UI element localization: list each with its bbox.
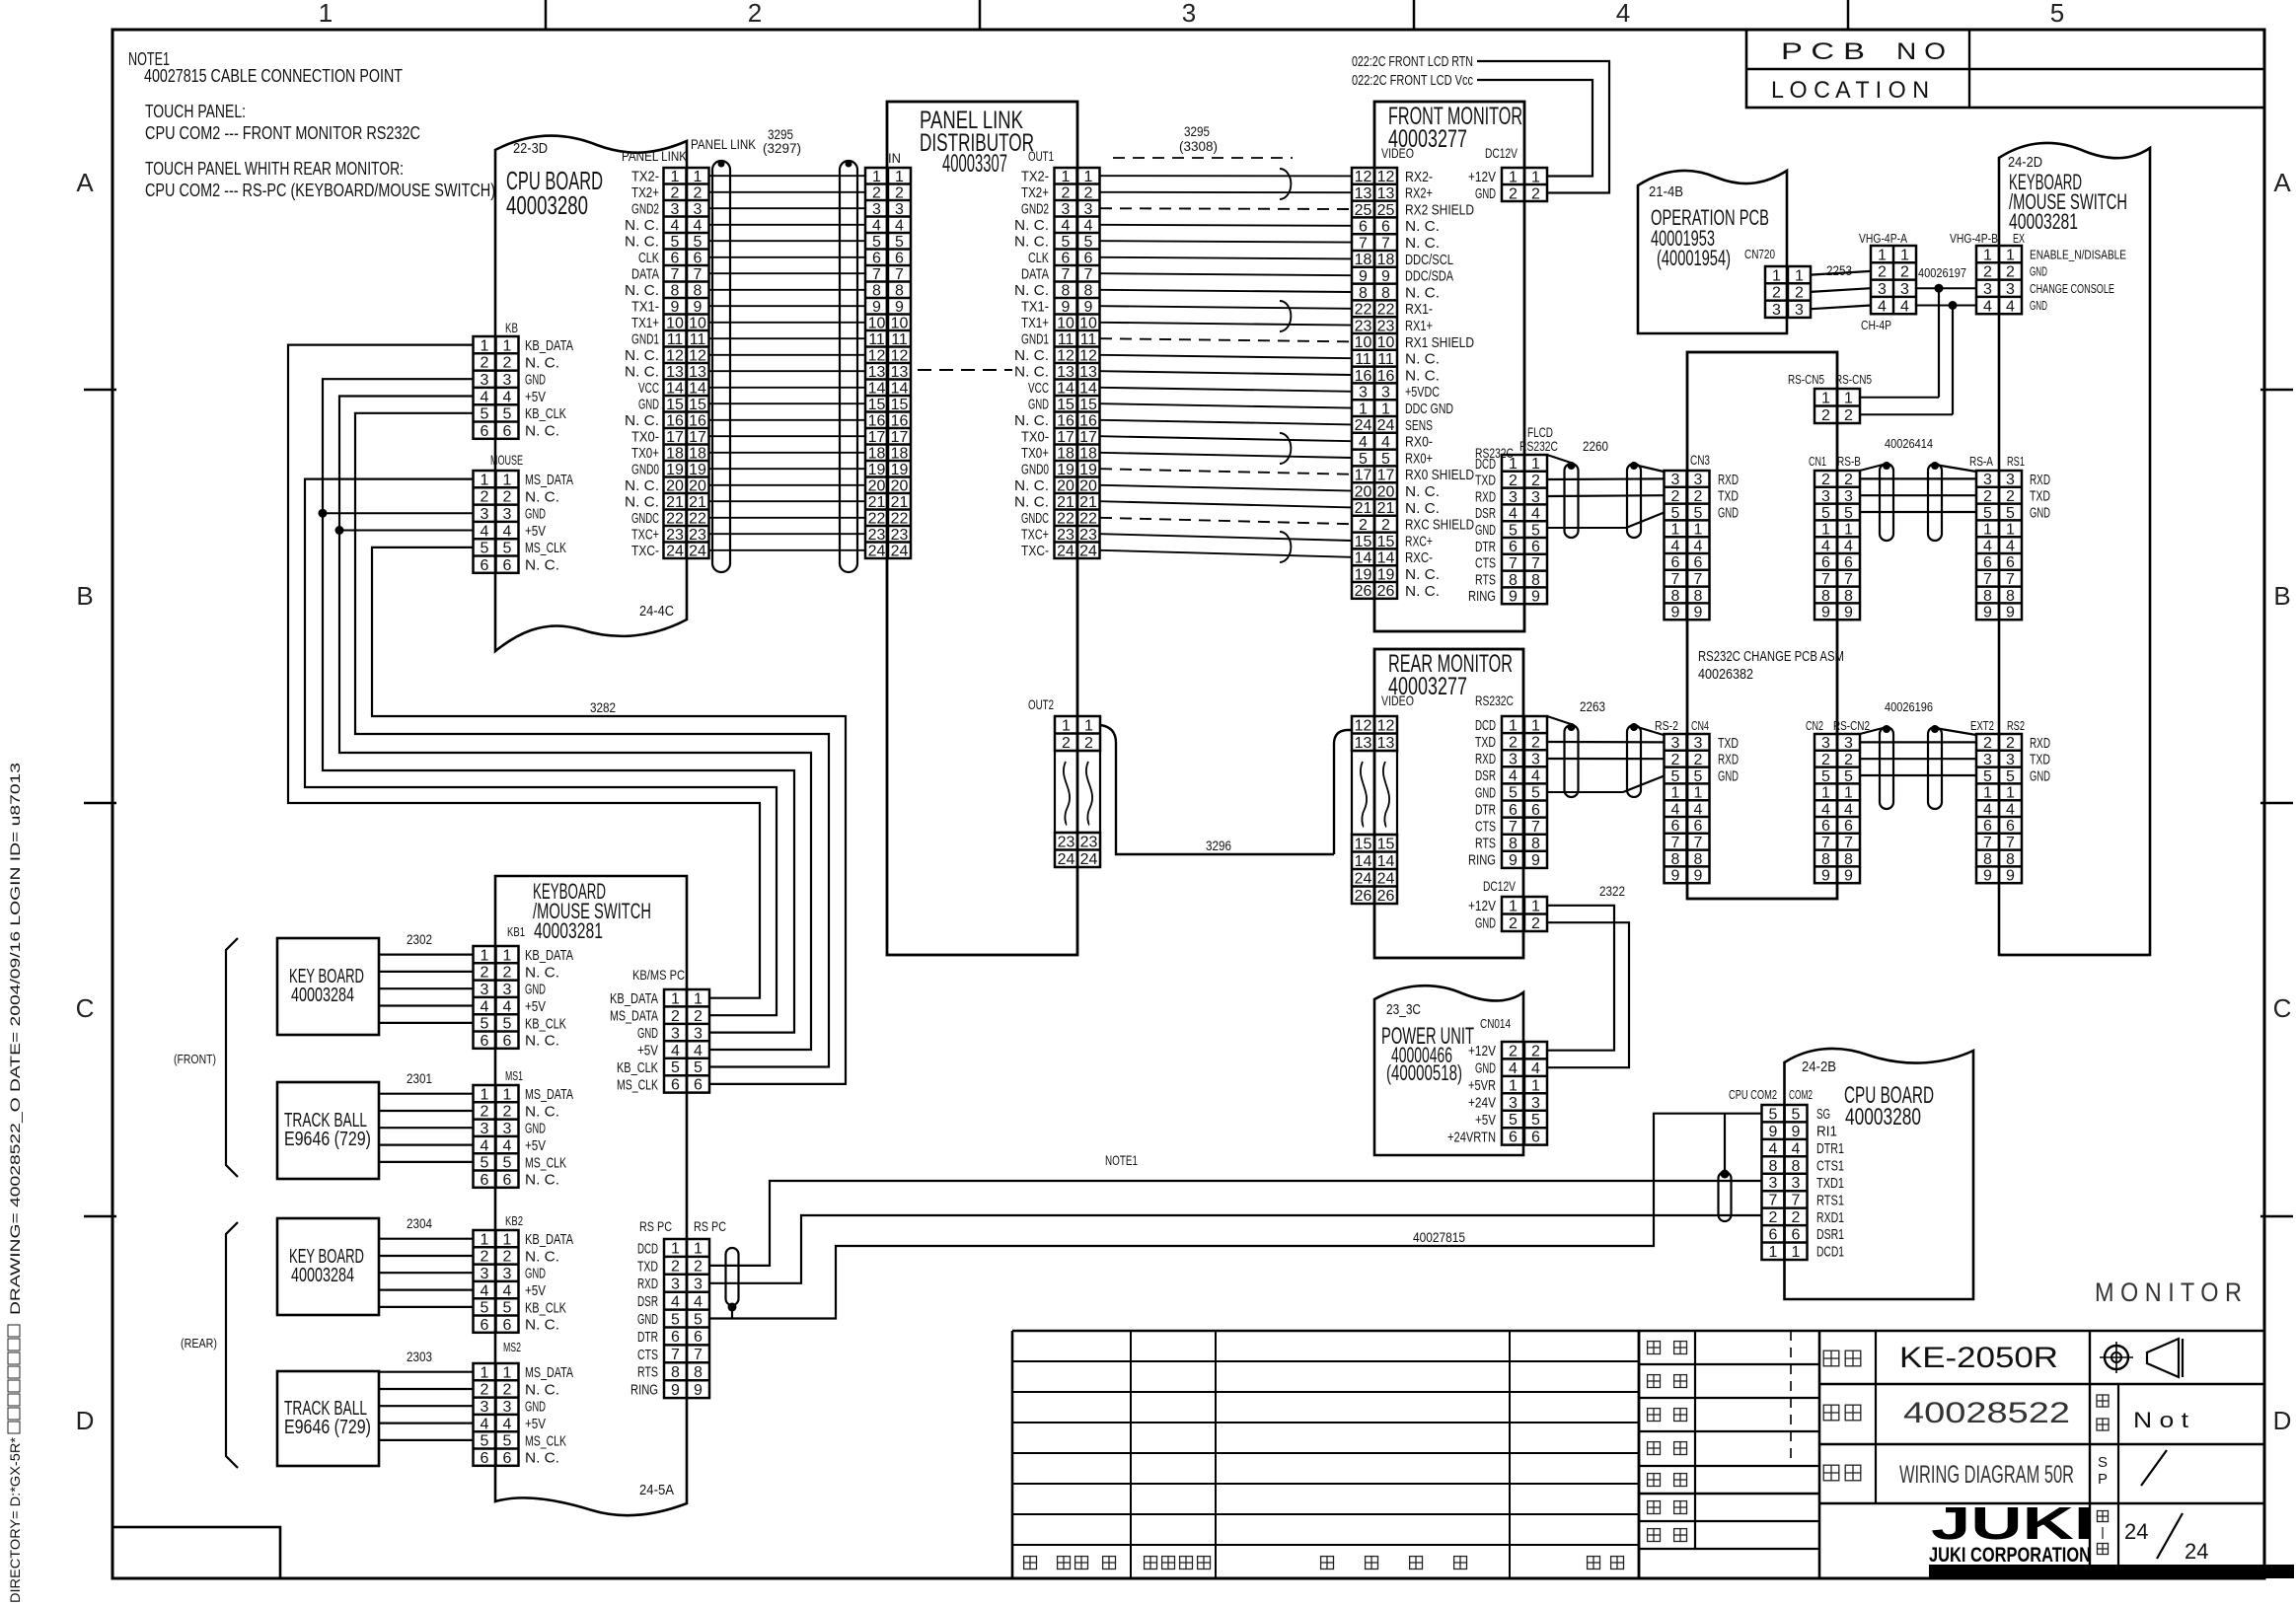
svg-text:9: 9 bbox=[671, 299, 680, 316]
svg-text:1: 1 bbox=[1062, 718, 1071, 735]
svg-text:2: 2 bbox=[1983, 264, 1992, 281]
svg-text:RX0-: RX0- bbox=[1405, 434, 1433, 451]
svg-text:2304: 2304 bbox=[407, 1215, 432, 1231]
svg-text:1: 1 bbox=[1878, 247, 1887, 263]
svg-text:RX2 SHIELD: RX2 SHIELD bbox=[1405, 201, 1474, 218]
svg-text:1: 1 bbox=[1900, 247, 1909, 263]
svg-text:24: 24 bbox=[1057, 544, 1074, 560]
svg-text:12: 12 bbox=[1377, 169, 1395, 185]
svg-text:RS232C: RS232C bbox=[1519, 438, 1558, 454]
svg-text:24: 24 bbox=[1355, 871, 1372, 888]
svg-text:11: 11 bbox=[667, 331, 684, 348]
svg-text:15: 15 bbox=[1079, 397, 1097, 413]
svg-text:1: 1 bbox=[503, 1364, 512, 1381]
svg-text:N. C.: N. C. bbox=[1405, 235, 1440, 252]
svg-text:9: 9 bbox=[1769, 1124, 1778, 1140]
svg-text:N O: N O bbox=[1896, 38, 1946, 65]
svg-text:5: 5 bbox=[2006, 505, 2015, 522]
svg-text:8: 8 bbox=[1769, 1158, 1778, 1175]
svg-text:6: 6 bbox=[671, 1077, 680, 1094]
svg-text:6: 6 bbox=[503, 1317, 512, 1334]
svg-text:4: 4 bbox=[1844, 801, 1853, 818]
svg-text:20: 20 bbox=[891, 478, 909, 495]
svg-text:5: 5 bbox=[503, 1155, 512, 1172]
svg-text:3: 3 bbox=[1983, 752, 1992, 768]
svg-text:7: 7 bbox=[694, 266, 703, 283]
svg-text:6: 6 bbox=[671, 251, 680, 267]
svg-text:DDC GND: DDC GND bbox=[1405, 401, 1453, 417]
svg-text:4: 4 bbox=[1671, 538, 1680, 554]
svg-text:MS_CLK: MS_CLK bbox=[525, 1154, 566, 1171]
svg-text:20: 20 bbox=[1079, 478, 1097, 495]
svg-text:11: 11 bbox=[1080, 331, 1097, 348]
svg-text:6: 6 bbox=[1531, 539, 1540, 555]
svg-text:N. C.: N. C. bbox=[525, 964, 559, 981]
svg-text:CTS1: CTS1 bbox=[1816, 1157, 1844, 1174]
svg-text:16: 16 bbox=[891, 413, 909, 430]
svg-text:N. C.: N. C. bbox=[1405, 566, 1440, 583]
svg-text:RING: RING bbox=[1468, 852, 1496, 869]
svg-text:GND1: GND1 bbox=[1021, 331, 1049, 348]
svg-text:M O N I T O R: M O N I T O R bbox=[2095, 1277, 2242, 1307]
svg-text:6: 6 bbox=[671, 1329, 680, 1346]
svg-text:+5V: +5V bbox=[525, 1137, 546, 1154]
svg-text:4: 4 bbox=[503, 1137, 512, 1154]
svg-text:3: 3 bbox=[503, 506, 512, 523]
svg-text:DSR: DSR bbox=[1475, 767, 1496, 784]
svg-text:24: 24 bbox=[1079, 544, 1097, 560]
svg-text:10: 10 bbox=[891, 316, 909, 332]
svg-text:25: 25 bbox=[1355, 202, 1372, 219]
svg-text:9: 9 bbox=[1694, 868, 1703, 885]
svg-text:6: 6 bbox=[1769, 1227, 1778, 1244]
svg-text:TXD: TXD bbox=[2030, 752, 2050, 768]
svg-text:2302: 2302 bbox=[407, 931, 432, 947]
svg-text:3: 3 bbox=[481, 506, 489, 523]
svg-text:2: 2 bbox=[748, 0, 762, 28]
svg-text:40003307: 40003307 bbox=[942, 150, 1007, 178]
svg-text:2: 2 bbox=[1531, 734, 1540, 751]
svg-text:24-5A: 24-5A bbox=[639, 1482, 674, 1498]
svg-text:14: 14 bbox=[1377, 853, 1395, 870]
svg-text:1: 1 bbox=[1983, 522, 1992, 539]
svg-text:3: 3 bbox=[671, 201, 680, 218]
svg-text:GND: GND bbox=[1475, 522, 1496, 539]
svg-text:CN2: CN2 bbox=[1806, 718, 1823, 733]
svg-text:RXC+: RXC+ bbox=[1405, 533, 1433, 549]
svg-text:KE-2050R: KE-2050R bbox=[1899, 1342, 2058, 1374]
svg-text:3: 3 bbox=[872, 201, 881, 218]
svg-text:2: 2 bbox=[481, 489, 489, 506]
svg-text:12: 12 bbox=[1355, 169, 1372, 185]
svg-text:7: 7 bbox=[1844, 571, 1853, 588]
svg-text:TXD: TXD bbox=[1475, 734, 1496, 751]
svg-text:1: 1 bbox=[1694, 785, 1703, 802]
svg-text:RXD1: RXD1 bbox=[1816, 1209, 1844, 1226]
svg-text:24: 24 bbox=[1377, 871, 1395, 888]
svg-text:N o t: N o t bbox=[2133, 1408, 2188, 1432]
svg-text:4: 4 bbox=[1509, 768, 1518, 785]
svg-text:20: 20 bbox=[868, 478, 886, 495]
svg-text:2: 2 bbox=[1769, 1209, 1778, 1226]
svg-text:B: B bbox=[2273, 581, 2290, 611]
svg-text:24: 24 bbox=[666, 544, 684, 560]
svg-text:5: 5 bbox=[1509, 522, 1518, 539]
svg-text:4: 4 bbox=[671, 218, 680, 235]
svg-text:N. C.: N. C. bbox=[625, 364, 659, 381]
svg-text:RS1: RS1 bbox=[2007, 454, 2025, 469]
svg-text:N. C.: N. C. bbox=[625, 494, 659, 511]
svg-text:9: 9 bbox=[1671, 605, 1680, 621]
svg-text:6: 6 bbox=[503, 1450, 512, 1467]
svg-text:21: 21 bbox=[891, 494, 909, 511]
svg-text:5: 5 bbox=[1671, 505, 1680, 522]
svg-text:13: 13 bbox=[1057, 364, 1074, 381]
svg-text:3: 3 bbox=[1084, 201, 1093, 218]
svg-text:MS1: MS1 bbox=[505, 1068, 523, 1083]
svg-text:5: 5 bbox=[1821, 505, 1830, 522]
svg-text:+24VRTN: +24VRTN bbox=[1447, 1129, 1496, 1145]
svg-text:N. C.: N. C. bbox=[1014, 347, 1049, 364]
svg-text:EXT2: EXT2 bbox=[1970, 718, 1994, 733]
svg-text:2: 2 bbox=[1509, 1044, 1518, 1060]
svg-text:12: 12 bbox=[1355, 718, 1372, 735]
svg-text:1: 1 bbox=[481, 1231, 489, 1248]
svg-text:5: 5 bbox=[671, 234, 680, 251]
svg-text:(REAR): (REAR) bbox=[181, 1336, 217, 1350]
svg-text:(40000518): (40000518) bbox=[1386, 1060, 1462, 1085]
svg-text:7: 7 bbox=[1983, 835, 1992, 851]
svg-text:3282: 3282 bbox=[590, 699, 616, 715]
svg-text:8: 8 bbox=[1359, 285, 1368, 302]
svg-text:8: 8 bbox=[671, 283, 680, 300]
svg-text:4: 4 bbox=[503, 1282, 512, 1299]
svg-text:8: 8 bbox=[2006, 588, 2015, 605]
svg-text:2322: 2322 bbox=[1599, 883, 1625, 899]
svg-text:17: 17 bbox=[666, 429, 684, 446]
svg-text:21: 21 bbox=[1355, 500, 1372, 517]
svg-text:P C B: P C B bbox=[1781, 38, 1865, 65]
svg-text:26: 26 bbox=[1355, 583, 1372, 600]
svg-text:8: 8 bbox=[1531, 836, 1540, 852]
svg-text:MS_DATA: MS_DATA bbox=[525, 1364, 573, 1381]
svg-text:2: 2 bbox=[481, 1382, 489, 1399]
svg-text:(FRONT): (FRONT) bbox=[174, 1052, 216, 1066]
svg-text:21: 21 bbox=[666, 494, 684, 511]
svg-text:2: 2 bbox=[503, 1104, 512, 1121]
svg-text:KB2: KB2 bbox=[505, 1213, 523, 1228]
svg-text:4: 4 bbox=[2006, 538, 2015, 554]
svg-text:1: 1 bbox=[1531, 899, 1540, 915]
svg-text:1: 1 bbox=[671, 169, 680, 185]
svg-text:40026196: 40026196 bbox=[1885, 699, 1933, 714]
svg-text:GND: GND bbox=[525, 506, 546, 523]
svg-text:16: 16 bbox=[1057, 413, 1074, 430]
svg-text:3: 3 bbox=[503, 1121, 512, 1137]
svg-text:GND: GND bbox=[525, 1121, 546, 1137]
svg-text:40003284: 40003284 bbox=[291, 1265, 354, 1286]
svg-text:A: A bbox=[2273, 168, 2291, 197]
svg-text:PANEL LINK: PANEL LINK bbox=[622, 148, 688, 164]
svg-text:3296: 3296 bbox=[1206, 838, 1231, 853]
svg-text:VIDEO: VIDEO bbox=[1381, 693, 1414, 708]
svg-text:DCD: DCD bbox=[1475, 456, 1496, 473]
svg-text:TXD: TXD bbox=[1718, 488, 1739, 505]
svg-text:CPU COM2: CPU COM2 bbox=[1729, 1087, 1777, 1102]
svg-text:JUKI CORPORATION: JUKI CORPORATION bbox=[1929, 1544, 2091, 1567]
svg-text:MS_DATA: MS_DATA bbox=[525, 472, 573, 488]
svg-text:2: 2 bbox=[1359, 517, 1368, 534]
svg-text:CN3: CN3 bbox=[1690, 452, 1710, 468]
svg-text:N. C.: N. C. bbox=[625, 412, 659, 429]
svg-text:RXD: RXD bbox=[1475, 488, 1496, 505]
svg-text:GND2: GND2 bbox=[1021, 201, 1049, 218]
svg-text:2: 2 bbox=[1821, 407, 1830, 424]
svg-text:3: 3 bbox=[503, 982, 512, 998]
svg-text:DIRECTORY= D:*GX-5R*: DIRECTORY= D:*GX-5R* bbox=[7, 1436, 23, 1603]
svg-text:N. C.: N. C. bbox=[525, 1172, 559, 1189]
svg-text:DCD1: DCD1 bbox=[1816, 1244, 1844, 1261]
svg-text:5: 5 bbox=[1381, 451, 1390, 468]
svg-text:3: 3 bbox=[1531, 752, 1540, 768]
svg-text:N. C.: N. C. bbox=[525, 557, 559, 574]
svg-text:4: 4 bbox=[1983, 801, 1992, 818]
svg-text:MS_CLK: MS_CLK bbox=[617, 1076, 658, 1093]
svg-text:5: 5 bbox=[1694, 505, 1703, 522]
svg-text:+5VDC: +5VDC bbox=[1405, 384, 1440, 401]
svg-text:4: 4 bbox=[1531, 1060, 1540, 1077]
svg-text:40003284: 40003284 bbox=[291, 985, 354, 1006]
svg-text:6: 6 bbox=[2006, 818, 2015, 835]
svg-text:3: 3 bbox=[1531, 1095, 1540, 1112]
svg-text:1: 1 bbox=[319, 0, 333, 28]
svg-text:2: 2 bbox=[1844, 752, 1853, 768]
svg-text:22: 22 bbox=[1355, 302, 1372, 319]
svg-text:13: 13 bbox=[1377, 735, 1395, 752]
svg-text:N. C.: N. C. bbox=[1014, 364, 1049, 381]
svg-text:RTS: RTS bbox=[1475, 571, 1496, 588]
svg-text:RXD: RXD bbox=[2030, 472, 2050, 488]
svg-text:5: 5 bbox=[503, 1300, 512, 1317]
svg-text:5: 5 bbox=[2050, 0, 2064, 28]
svg-text:6: 6 bbox=[503, 1172, 512, 1189]
svg-text:5: 5 bbox=[1671, 768, 1680, 785]
svg-text:6: 6 bbox=[1983, 818, 1992, 835]
svg-text:17: 17 bbox=[1355, 468, 1372, 484]
svg-text:GND: GND bbox=[638, 397, 659, 413]
svg-text:24: 24 bbox=[868, 544, 886, 560]
svg-text:6: 6 bbox=[1671, 554, 1680, 571]
svg-text:3: 3 bbox=[1792, 1175, 1801, 1192]
svg-text:23: 23 bbox=[1355, 318, 1372, 334]
svg-text:5: 5 bbox=[1531, 522, 1540, 539]
svg-text:3: 3 bbox=[481, 982, 489, 998]
svg-text:GNDC: GNDC bbox=[631, 510, 659, 527]
svg-text:RXD: RXD bbox=[2030, 735, 2050, 752]
svg-text:2253: 2253 bbox=[1826, 262, 1852, 278]
svg-text:GND: GND bbox=[637, 1025, 658, 1042]
svg-text:RXC SHIELD: RXC SHIELD bbox=[1405, 517, 1474, 534]
svg-text:CHANGE CONSOLE: CHANGE CONSOLE bbox=[2030, 281, 2114, 296]
svg-text:11: 11 bbox=[1058, 331, 1074, 348]
svg-text:RING: RING bbox=[630, 1382, 658, 1399]
svg-text:3: 3 bbox=[1062, 201, 1071, 218]
svg-text:21: 21 bbox=[1079, 494, 1097, 511]
svg-text:6: 6 bbox=[1983, 554, 1992, 571]
svg-text:18: 18 bbox=[891, 446, 909, 463]
svg-text:N. C.: N. C. bbox=[1405, 351, 1440, 368]
svg-text:TOUCH PANEL WHITH REAR MONITOR: TOUCH PANEL WHITH REAR MONITOR: bbox=[145, 159, 404, 179]
svg-text:15: 15 bbox=[1377, 534, 1395, 550]
svg-text:CTS: CTS bbox=[1475, 555, 1496, 572]
svg-text:4: 4 bbox=[503, 1416, 512, 1432]
svg-text:1: 1 bbox=[671, 991, 680, 1008]
svg-text:SENS: SENS bbox=[1405, 417, 1433, 434]
svg-text:+5V: +5V bbox=[525, 998, 546, 1015]
svg-text:GND: GND bbox=[1718, 767, 1739, 784]
svg-text:TX2+: TX2+ bbox=[631, 184, 659, 201]
svg-text:5: 5 bbox=[1509, 1112, 1518, 1129]
svg-text:7: 7 bbox=[694, 1347, 703, 1363]
svg-text:3: 3 bbox=[1900, 281, 1909, 298]
svg-text:4: 4 bbox=[481, 1137, 489, 1154]
svg-text:2: 2 bbox=[1671, 488, 1680, 505]
svg-text:DSR: DSR bbox=[637, 1293, 658, 1310]
svg-text:CLK: CLK bbox=[1028, 250, 1049, 266]
svg-text:TX0-: TX0- bbox=[631, 429, 659, 446]
svg-text:6: 6 bbox=[481, 557, 489, 574]
svg-text:2: 2 bbox=[481, 355, 489, 372]
svg-text:18: 18 bbox=[1377, 252, 1395, 268]
svg-text:6: 6 bbox=[1844, 554, 1853, 571]
svg-text:4: 4 bbox=[1694, 801, 1703, 818]
svg-text:DRAWING= 40028522_O DATE= 2004: DRAWING= 40028522_O DATE= 2004/09/16 LOG… bbox=[7, 763, 23, 1315]
svg-text:(3297): (3297) bbox=[763, 140, 801, 156]
svg-text:RS-CN5: RS-CN5 bbox=[1788, 372, 1824, 387]
svg-text:5: 5 bbox=[503, 1016, 512, 1033]
svg-text:N. C.: N. C. bbox=[1405, 500, 1440, 517]
svg-text:2: 2 bbox=[481, 1249, 489, 1266]
svg-text:8: 8 bbox=[1983, 851, 1992, 868]
svg-text:KB/MS PC: KB/MS PC bbox=[632, 967, 685, 983]
svg-text:2: 2 bbox=[503, 1249, 512, 1266]
svg-text:E9646 (729): E9646 (729) bbox=[284, 1417, 371, 1438]
svg-text:14: 14 bbox=[666, 381, 684, 398]
svg-text:2: 2 bbox=[1062, 185, 1071, 202]
svg-text:12: 12 bbox=[868, 348, 886, 365]
svg-text:TXC+: TXC+ bbox=[631, 527, 659, 544]
svg-text:9: 9 bbox=[694, 299, 703, 316]
svg-text:40026382: 40026382 bbox=[1698, 666, 1753, 683]
svg-text:5: 5 bbox=[1509, 785, 1518, 802]
svg-text:2: 2 bbox=[2006, 735, 2015, 752]
svg-text:3: 3 bbox=[1531, 489, 1540, 506]
svg-text:4: 4 bbox=[1694, 538, 1703, 554]
svg-text:24: 24 bbox=[1377, 417, 1395, 434]
svg-text:3: 3 bbox=[1878, 281, 1887, 298]
svg-text:RX2+: RX2+ bbox=[1405, 185, 1433, 202]
svg-text:40003280: 40003280 bbox=[1845, 1104, 1921, 1131]
svg-text:DTR: DTR bbox=[1475, 539, 1496, 555]
svg-text:10: 10 bbox=[666, 316, 684, 332]
svg-text:1: 1 bbox=[872, 169, 881, 185]
svg-text:12: 12 bbox=[689, 348, 706, 365]
svg-text:DCD: DCD bbox=[637, 1240, 658, 1257]
svg-text:21: 21 bbox=[689, 494, 706, 511]
svg-text:24: 24 bbox=[2185, 1539, 2208, 1564]
svg-text:25: 25 bbox=[1377, 202, 1395, 219]
svg-text:N. C.: N. C. bbox=[525, 1248, 559, 1265]
svg-text:23: 23 bbox=[1079, 527, 1097, 544]
svg-text:CLK: CLK bbox=[638, 250, 659, 266]
svg-text:3295: 3295 bbox=[1184, 123, 1210, 139]
svg-text:18: 18 bbox=[1079, 446, 1097, 463]
svg-text:GND2: GND2 bbox=[631, 201, 659, 218]
svg-text:RX2-: RX2- bbox=[1405, 169, 1433, 185]
svg-text:4: 4 bbox=[694, 218, 703, 235]
svg-text:GND: GND bbox=[525, 372, 546, 389]
svg-text:RXD: RXD bbox=[1718, 472, 1739, 488]
svg-text:5: 5 bbox=[481, 1155, 489, 1172]
svg-text:3: 3 bbox=[2006, 752, 2015, 768]
svg-text:RS-B: RS-B bbox=[1837, 454, 1861, 469]
svg-text:3: 3 bbox=[1795, 302, 1804, 319]
svg-text:40003281: 40003281 bbox=[534, 918, 603, 943]
svg-text:TX1-: TX1- bbox=[1021, 299, 1049, 316]
svg-text:5: 5 bbox=[895, 234, 904, 251]
svg-text:23: 23 bbox=[666, 527, 684, 544]
svg-text:5: 5 bbox=[503, 1433, 512, 1450]
svg-text:GND: GND bbox=[1475, 784, 1496, 801]
svg-text:VHG-4P-B: VHG-4P-B bbox=[1950, 231, 1998, 246]
svg-text:3: 3 bbox=[671, 1025, 680, 1042]
svg-text:N. C.: N. C. bbox=[525, 423, 559, 440]
svg-text:23: 23 bbox=[891, 527, 909, 544]
svg-text:1: 1 bbox=[503, 337, 512, 354]
svg-text:JUKI: JUKI bbox=[1931, 1497, 2094, 1549]
svg-text:23_3C: 23_3C bbox=[1386, 1001, 1421, 1018]
svg-text:3: 3 bbox=[694, 201, 703, 218]
svg-text:4: 4 bbox=[1509, 1060, 1518, 1077]
svg-text:1: 1 bbox=[1531, 456, 1540, 473]
svg-text:RS-CN5: RS-CN5 bbox=[1835, 372, 1872, 387]
svg-text:2: 2 bbox=[1509, 734, 1518, 751]
svg-text:1: 1 bbox=[1671, 522, 1680, 539]
svg-text:2: 2 bbox=[671, 185, 680, 202]
svg-text:7: 7 bbox=[1531, 555, 1540, 572]
svg-text:1: 1 bbox=[1694, 522, 1703, 539]
svg-text:3: 3 bbox=[1844, 488, 1853, 505]
svg-text:9: 9 bbox=[1821, 868, 1830, 885]
svg-text:4: 4 bbox=[1062, 218, 1071, 235]
svg-text:24-2B: 24-2B bbox=[1802, 1058, 1836, 1075]
svg-text:20: 20 bbox=[1057, 478, 1074, 495]
svg-text:40003280: 40003280 bbox=[506, 190, 588, 220]
svg-text:8: 8 bbox=[1062, 283, 1071, 300]
svg-text:2: 2 bbox=[503, 965, 512, 982]
svg-text:KB: KB bbox=[505, 320, 518, 335]
svg-text:MS_CLK: MS_CLK bbox=[525, 1432, 566, 1449]
svg-text:022:2C FRONT LCD Vcc: 022:2C FRONT LCD Vcc bbox=[1352, 72, 1473, 89]
svg-text:2: 2 bbox=[1084, 735, 1093, 752]
svg-text:2: 2 bbox=[2006, 264, 2015, 281]
svg-text:15: 15 bbox=[1355, 534, 1372, 550]
svg-text:2: 2 bbox=[1983, 735, 1992, 752]
svg-text:23: 23 bbox=[1058, 835, 1075, 851]
svg-text:4: 4 bbox=[1821, 538, 1830, 554]
svg-text:8: 8 bbox=[1844, 851, 1853, 868]
svg-text:21: 21 bbox=[1057, 494, 1074, 511]
